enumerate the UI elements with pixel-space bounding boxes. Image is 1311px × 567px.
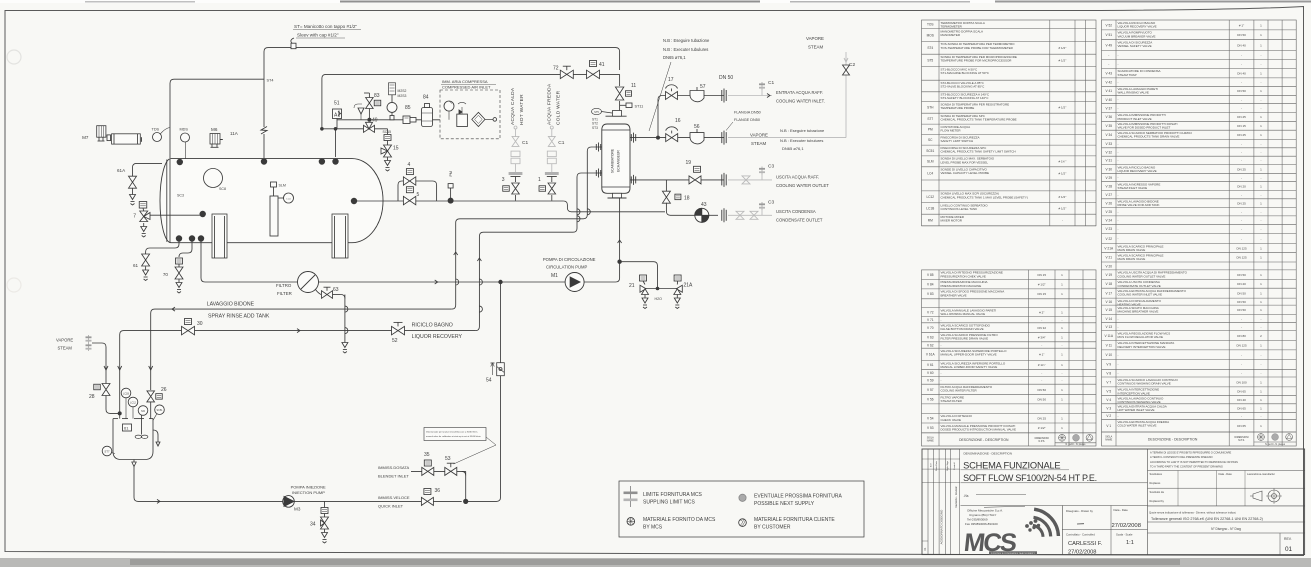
svg-text:CONTINUOS WASHING DRAIN VALVE: CONTINUOS WASHING DRAIN VALVE (1118, 381, 1171, 385)
funnel vent (354, 104, 362, 108)
wire liquor recovery riser right (452, 147, 602, 309)
valve 5 (403, 196, 415, 204)
svg-text:-: - (1118, 210, 1119, 214)
svg-text:V 1: V 1 (1106, 424, 1111, 428)
svg-text:STEAM: STEAM (808, 45, 823, 50)
vessel left head seam (166, 160, 168, 242)
svg-text:-: - (1108, 62, 1109, 66)
tank overflow (153, 430, 158, 442)
valve 56 steam filter (690, 133, 704, 144)
vessel nozzle left mid (200, 211, 206, 217)
svg-text:FLANGE DN50: FLANGE DN50 (734, 118, 760, 122)
svg-text:-: - (1260, 237, 1261, 241)
svg-text:MCS FLOW REGULATOR VALVE: MCS FLOW REGULATOR VALVE (1118, 335, 1163, 339)
svg-text:C3: C3 (768, 164, 774, 170)
svg-text:V 22: V 22 (1105, 237, 1112, 241)
svg-text:V 32: V 32 (1105, 150, 1112, 154)
svg-text:-: - (1241, 142, 1242, 146)
legend by mcs symbol (627, 518, 635, 526)
valve 53 dosata manual (445, 467, 457, 475)
valve 17 diaphragm cooling inlet (666, 92, 678, 100)
svg-text:CONDENSATE OUTLET VALVE: CONDENSATE OUTLET VALVE (1118, 284, 1161, 288)
svg-text:Data - Date: Data - Date (1219, 472, 1233, 476)
svg-text:ST4: ST4 (267, 79, 274, 83)
svg-text:Sleev with cap #1/2": Sleev with cap #1/2" (297, 33, 339, 38)
svg-text:DN 40: DN 40 (1237, 43, 1246, 47)
svg-text:FILTER: FILTER (277, 291, 292, 296)
svg-text:ST2-VALVE BLOCKING AT 85°C: ST2-VALVE BLOCKING AT 85°C (941, 85, 986, 89)
instrument table (922, 20, 1097, 226)
svg-text:DESCRIZIONE - DESCRIPTION: DESCRIZIONE - DESCRIPTION (1148, 437, 1198, 441)
svg-text:-: - (1118, 150, 1119, 154)
air filter diamond (472, 112, 485, 126)
svg-text:V 36: V 36 (1105, 115, 1112, 119)
svg-text:# 1/2": # 1/2" (1059, 106, 1067, 110)
valve 21 (640, 275, 647, 281)
svg-text:5: 5 (417, 192, 420, 198)
svg-text:-: - (1118, 98, 1119, 102)
wire spray rinse add tank line (151, 309, 452, 390)
wire injection line (134, 460, 460, 502)
svg-text:FILTER PRESSURE DRAIN VALVE: FILTER PRESSURE DRAIN VALVE (941, 337, 989, 341)
svg-text:16: 16 (675, 118, 681, 124)
svg-text:V 11: V 11 (1106, 343, 1113, 347)
svg-text:DN 20: DN 20 (1237, 184, 1246, 188)
valve 57 cooling water filter (690, 91, 704, 102)
arrow recovery riser (454, 252, 458, 255)
valve 11 delivery interception (615, 87, 623, 100)
svg-text:V 30: V 30 (1105, 167, 1112, 171)
svg-text:N. pezzi - N. pieces: N. pezzi - N. pieces (1265, 444, 1286, 446)
svg-text:11: 11 (631, 83, 636, 89)
svg-text:POSSIBLE NEXT SUPPLY: POSSIBLE NEXT SUPPLY (754, 501, 815, 507)
circulation pump M1 (565, 273, 584, 292)
svg-text:Urgnano (BG) ITALY: Urgnano (BG) ITALY (969, 513, 996, 517)
svg-text:V 61: V 61 (927, 363, 934, 367)
valve 52 liquor recovery (392, 326, 405, 334)
svg-text:Officine Meccaniche S.p.A.: Officine Meccaniche S.p.A. (967, 509, 1003, 513)
svg-text:1:1: 1:1 (1126, 540, 1134, 546)
instrument SC51 (155, 405, 165, 415)
svg-text:V 17: V 17 (1105, 291, 1112, 295)
svg-text:VESSEL SAFETY VALVE: VESSEL SAFETY VALVE (1118, 44, 1152, 48)
valve table right footer (1102, 431, 1297, 433)
wire cooling water outlet (630, 179, 724, 181)
manhole SC8 (204, 169, 223, 188)
gauge TDS (153, 133, 162, 142)
svg-text:V 19: V 19 (1105, 273, 1112, 277)
svg-text:ST5: ST5 (927, 59, 933, 63)
svg-text:-: - (1260, 414, 1261, 418)
svg-text:INIECTION PUMP: INIECTION PUMP (292, 490, 325, 495)
svg-text:Sostituito da: Sostituito da (1150, 490, 1165, 494)
svg-text:-: - (1062, 343, 1063, 347)
svg-text:MDS: MDS (180, 128, 189, 132)
svg-text:DN 125: DN 125 (1236, 246, 1247, 250)
svg-text:57: 57 (700, 84, 706, 90)
svg-text:-: - (1108, 53, 1109, 57)
svg-text:V 52: V 52 (1105, 23, 1112, 27)
svg-text:V 71: V 71 (927, 318, 934, 322)
svg-text:ST= Manicotto con tappo #1/2": ST= Manicotto con tappo #1/2" (294, 24, 357, 29)
svg-text:-: - (1062, 371, 1063, 375)
svg-text:C1: C1 (768, 80, 774, 86)
svg-text:-: - (1260, 150, 1261, 154)
svg-text:IMMISS.DOSATA: IMMISS.DOSATA (378, 465, 410, 470)
svg-text:V 18: V 18 (1105, 282, 1112, 286)
svg-text:V 14: V 14 (1105, 317, 1112, 321)
svg-text:36: 36 (435, 488, 441, 494)
svg-text:DN 32: DN 32 (1037, 326, 1046, 330)
svg-text:N.P.S.: N.P.S. (1238, 439, 1245, 442)
svg-text:Controllato - Controlled: Controllato - Controlled (1066, 533, 1095, 537)
svg-text:21A: 21A (684, 283, 694, 289)
svg-text:M7: M7 (82, 135, 89, 140)
svg-text:CONDENSATE OUTLET: CONDENSATE OUTLET (776, 218, 823, 223)
svg-text:DN 50: DN 50 (1037, 398, 1046, 402)
svg-text:-: - (1260, 218, 1261, 222)
drawn by cell (1061, 506, 1063, 555)
svg-text:-: - (1241, 363, 1242, 367)
wire customer cooling inlet gray (728, 95, 772, 97)
wire wall rinse line 72-41 (322, 74, 620, 128)
svg-text:LIMITE FORNITURA MCS: LIMITE FORNITURA MCS (643, 492, 703, 498)
wire filter drain down (344, 295, 346, 340)
exchanger nozzle left upper (595, 144, 597, 150)
svg-text:# 1/2": # 1/2" (1059, 207, 1067, 211)
MCS logo (962, 509, 1058, 557)
svg-text:ST1-MACHINE BLOCKING AT 50°C: ST1-MACHINE BLOCKING AT 50°C (941, 71, 990, 75)
svg-text:DN 15: DN 15 (1037, 273, 1046, 277)
svg-text:LIQUOR RECOVERY: LIQUOR RECOVERY (412, 334, 463, 340)
valve 61A upper door safety (133, 163, 163, 176)
svg-text:-: - (941, 318, 942, 322)
svg-text:DENOMINAZIONE - DESCRIPTION: DENOMINAZIONE - DESCRIPTION (964, 452, 1013, 456)
replaces cells (1148, 470, 1305, 472)
svg-text:-: - (941, 343, 942, 347)
svg-text:-: - (1260, 176, 1261, 180)
svg-text:-: - (1260, 53, 1261, 57)
svg-text:# 1/2": # 1/2" (1038, 426, 1046, 430)
svg-text:STEAM: STEAM (58, 346, 73, 351)
svg-text:BY MCS: BY MCS (643, 525, 663, 531)
svg-text:-: - (1241, 218, 1242, 222)
svg-text:ACQUA FREDDA: ACQUA FREDDA (546, 83, 552, 125)
svg-text:VALVE FOR DOSED PRODUCT INLET: VALVE FOR DOSED PRODUCT INLET (1118, 126, 1171, 130)
svg-text:-: - (1260, 62, 1261, 66)
wire liquor recovery line (120, 331, 476, 419)
svg-text:TEMPERATURE PROBE FOR MICROPRO: TEMPERATURE PROBE FOR MICROPROCESSOR (941, 59, 1013, 63)
svg-text:51: 51 (334, 101, 340, 107)
svg-text:-: - (1118, 218, 1119, 222)
svg-text:ST4: ST4 (927, 46, 933, 50)
svg-text:-: - (1241, 414, 1242, 418)
svg-text:REV.: REV. (1284, 537, 1292, 541)
svg-text:4: 4 (408, 162, 411, 168)
svg-text:STEAM TRAP: STEAM TRAP (1118, 73, 1137, 77)
svg-text:26: 26 (161, 387, 167, 393)
svg-text:V 70: V 70 (927, 326, 934, 330)
flange hot water (511, 176, 521, 178)
svg-text:SAFETY LIMIT SWITCH: SAFETY LIMIT SWITCH (941, 139, 974, 143)
svg-text:-: - (941, 371, 942, 375)
valve 28 steam inlet (102, 384, 110, 396)
valve 3 water inlet (515, 177, 517, 183)
svg-text:MANUAL LOWER-DOOR SAFETY VALVE: MANUAL LOWER-DOOR SAFETY VALVE (941, 365, 998, 369)
valve 34 drain (324, 501, 326, 507)
svg-text:-: - (1118, 80, 1119, 84)
svg-text:PRESSURIZATION CHEK VALVE: PRESSURIZATION CHEK VALVE (941, 274, 986, 278)
svg-text:LC1B: LC1B (123, 393, 129, 396)
svg-text:-: - (1118, 159, 1119, 163)
svg-text:Scala - Scale: Scala - Scale (1116, 533, 1133, 537)
svg-text:53: 53 (445, 456, 451, 462)
wire riser check valve (460, 282, 501, 501)
svg-text:SC: SC (928, 138, 933, 142)
svg-text:-: - (1241, 227, 1242, 231)
sleeve with cap symbol (291, 43, 296, 49)
label 61 tank (123, 424, 132, 431)
node C1 inlet (761, 82, 763, 90)
svg-text:POMPA DI CIRCOLAZIONE: POMPA DI CIRCOLAZIONE (543, 257, 596, 262)
svg-text:VACUUM BREAKER VALVE: VACUUM BREAKER VALVE (1118, 34, 1156, 38)
svg-text:18: 18 (684, 196, 690, 202)
svg-text:RM: RM (928, 218, 933, 222)
drain filter line (344, 339, 346, 343)
svg-text:M6: M6 (211, 127, 218, 132)
wire cooling water inlet line (658, 96, 724, 138)
svg-text:C1: C1 (558, 140, 564, 146)
svg-text:DN65 ø76,1: DN65 ø76,1 (782, 146, 804, 151)
valve 18 condensate (662, 191, 670, 203)
svg-text:-: - (1241, 106, 1242, 110)
svg-text:Revisione - Revision: Revisione - Revision (955, 485, 958, 507)
valve 72 manual wall rinse (560, 70, 573, 78)
wire air branch line (322, 128, 388, 130)
svg-text:-: - (1241, 80, 1242, 84)
svg-text:-: - (1118, 62, 1119, 66)
svg-text:-: - (1241, 237, 1242, 241)
svg-text:35: 35 (424, 452, 430, 458)
svg-text:# 1": # 1" (1039, 353, 1044, 357)
steam trap 43 (695, 208, 709, 222)
instrument table footer (922, 432, 1097, 434)
svg-text:V 9: V 9 (1106, 363, 1111, 367)
svg-text:-: - (1241, 317, 1242, 321)
svg-text:-: - (1260, 193, 1261, 197)
svg-text:V 24: V 24 (1105, 218, 1112, 222)
svg-text:19: 19 (686, 160, 692, 166)
svg-text:V 62: V 62 (927, 343, 934, 347)
svg-text:-: - (1241, 193, 1242, 197)
svg-text:43: 43 (701, 202, 707, 208)
svg-text:ECHANGEUR: ECHANGEUR (617, 150, 621, 172)
legend limit symbol (630, 486, 632, 507)
svg-text:VESSEL CAPACITY LEVEL PROBE: VESSEL CAPACITY LEVEL PROBE (941, 171, 990, 175)
air gauge in box (444, 101, 454, 111)
motor M6 (210, 134, 220, 145)
svg-text:V 26: V 26 (1105, 201, 1112, 205)
svg-text:Replaces: Replaces (1150, 481, 1162, 485)
svg-text:INTERCEPTION VALVE: INTERCEPTION VALVE (1118, 391, 1150, 395)
svg-text:-: - (1241, 150, 1242, 154)
svg-text:V 60: V 60 (927, 371, 934, 375)
svg-text:STH: STH (927, 106, 934, 110)
drawing number cell (1148, 521, 1305, 523)
svg-text:POMPA INIEZIONE: POMPA INIEZIONE (291, 485, 326, 490)
svg-text:-: - (1241, 353, 1242, 357)
svg-text:-: - (1260, 142, 1261, 146)
svg-text:EVENTUALE PROSSIMA FORNITURA: EVENTUALE PROSSIMA FORNITURA (754, 494, 842, 500)
svg-text:SLM: SLM (927, 160, 934, 164)
svg-text:-: - (1241, 62, 1242, 66)
svg-text:V 29: V 29 (1105, 176, 1112, 180)
valve 36 quick inlet (421, 497, 433, 505)
svg-text:63: 63 (333, 287, 339, 293)
svg-text:Disegnato - Drawn by: Disegnato - Drawn by (1066, 509, 1093, 513)
svg-text:DESCRIZIONE - DESCRIPTION: DESCRIZIONE - DESCRIPTION (959, 438, 1009, 442)
svg-text:VAPORE: VAPORE (56, 338, 73, 343)
svg-text:Sigla-Sign: Sigla-Sign (947, 460, 949, 471)
svg-text:ACQUA CALDA: ACQUA CALDA (510, 87, 516, 125)
valve 4 (403, 177, 415, 185)
svg-text:-: - (941, 379, 942, 383)
svg-text:-: - (1118, 227, 1119, 231)
svg-text:V 31: V 31 (1105, 159, 1112, 163)
svg-text:COMPRESSED AIR INLET: COMPRESSED AIR INLET (442, 85, 491, 90)
svg-text:Tel 035/893069: Tel 035/893069 (967, 518, 988, 522)
svg-text:41: 41 (599, 62, 605, 68)
svg-text:ST7: ST7 (104, 450, 110, 454)
svg-text:ST3-SAFETY BLOCKING AT 140°C: ST3-SAFETY BLOCKING AT 140°C (941, 96, 990, 100)
instrument ST11 (620, 104, 626, 106)
svg-text:-: - (1260, 371, 1261, 375)
svg-text:V 21A: V 21A (1104, 246, 1114, 250)
svg-text:SC51: SC51 (157, 409, 164, 412)
svg-text:MATERIALE FORNITURA CLIENTE: MATERIALE FORNITURA CLIENTE (754, 517, 835, 523)
svg-text:CHEMICAL PRODUCTS TANK SAFETY: CHEMICAL PRODUCTS TANK SAFETY LIMIT SWIT… (941, 150, 1016, 154)
svg-text:LC4: LC4 (927, 172, 933, 176)
arrow main line (435, 280, 438, 284)
svg-text:TOS-TEMPERATURE PROBE FOR THER: TOS-TEMPERATURE PROBE FOR THERMOMETER (941, 46, 1014, 50)
legal text (1147, 449, 1149, 555)
svg-text:-: - (1118, 53, 1119, 57)
svg-text:-: - (1260, 353, 1261, 357)
svg-text:PM: PM (449, 171, 453, 176)
wire immissione dosata line (411, 470, 466, 472)
svg-text:PRESSURIZATION MACHINE: PRESSURIZATION MACHINE (941, 284, 982, 288)
svg-text:-: - (1118, 414, 1119, 418)
svg-text:-: - (1118, 176, 1119, 180)
valve 19 cooling outlet (689, 176, 701, 184)
svg-text:27/02/2008: 27/02/2008 (1068, 550, 1096, 556)
filter FILTRO (298, 272, 319, 293)
valve 26 rinse add tank (147, 391, 155, 402)
svg-text:HOT WATER INLET VALVE: HOT WATER INLET VALVE (1118, 408, 1155, 412)
svg-text:-: - (1118, 363, 1119, 367)
svg-text:N.B : Executer tubulures: N.B : Executer tubulures (663, 47, 708, 52)
svg-text:SC51: SC51 (926, 149, 934, 153)
svg-text:STEAM FILTER: STEAM FILTER (941, 399, 963, 403)
valve C2 steam supply (843, 65, 850, 75)
gauge on air line (387, 102, 397, 112)
svg-text:ST11: ST11 (635, 104, 644, 108)
svg-text:-: - (1241, 210, 1242, 214)
wire steam to tank (92, 343, 120, 413)
wire condensate to pump (666, 203, 694, 216)
svg-text:# 1¼": # 1¼" (1038, 363, 1046, 367)
svg-text:MATERIALE FORNITO DA MCS: MATERIALE FORNITO DA MCS (643, 517, 716, 523)
vessel nozzle dots bottom (176, 235, 182, 241)
svg-text:Controll.: Controll. (953, 462, 956, 471)
svg-text:-: - (1062, 318, 1063, 322)
svg-text:-: - (1041, 343, 1042, 347)
valve 61 lower door safety (146, 241, 179, 254)
svg-text:21: 21 (629, 283, 635, 289)
svg-text:54: 54 (486, 378, 492, 384)
legend box (619, 481, 864, 537)
svg-text:CHEMICAL PRODUCTS TANK 1 MAX L: CHEMICAL PRODUCTS TANK 1 MAX LEVEL PROBE… (941, 195, 1028, 199)
svg-text:DN 15: DN 15 (1237, 124, 1246, 128)
svg-text:BY CUSTOMER: BY CUSTOMER (754, 525, 791, 531)
svg-text:-Ns: -Ns (964, 494, 969, 498)
title block revision strip (927, 449, 929, 555)
air regulator in box (457, 114, 468, 126)
svg-text:17: 17 (668, 77, 674, 83)
svg-text:V 27: V 27 (1105, 193, 1112, 197)
wire air line (337, 119, 440, 121)
svg-text:M3: M3 (141, 409, 145, 413)
svg-text:-: - (1260, 98, 1261, 102)
svg-text:# 1/2": # 1/2" (1059, 59, 1067, 63)
vessel support leg right (332, 214, 348, 258)
svg-text:DN 25: DN 25 (1237, 115, 1246, 119)
svg-text:V 2: V 2 (1106, 414, 1111, 418)
svg-text:ENTRATA ACQUA RAFF.: ENTRATA ACQUA RAFF. (776, 90, 823, 95)
svg-text:-: - (1041, 379, 1042, 383)
svg-text:QUICK INLET: QUICK INLET (378, 504, 404, 509)
svg-text:LC1B: LC1B (926, 207, 934, 211)
svg-text:USCITA CONDENSA: USCITA CONDENSA (776, 209, 816, 214)
svg-text:A TERMINI DI LEGGE E' PROIBITO: A TERMINI DI LEGGE E' PROIBITO RIPRODURR… (1150, 451, 1232, 455)
svg-text:C3: C3 (768, 200, 774, 206)
flange cooling outlet (721, 174, 723, 185)
svg-text:CHEMICAL PRODUCTS TANK DRAIN V: CHEMICAL PRODUCTS TANK DRAIN VALVE (1118, 135, 1180, 139)
svg-text:V 28: V 28 (1105, 184, 1112, 188)
svg-text:DN 50: DN 50 (719, 75, 733, 81)
flange DN50 inlet (721, 90, 723, 101)
solenoid M2S2 M2S3 (389, 83, 396, 95)
svg-text:M2S3: M2S3 (398, 94, 407, 98)
svg-text:-: - (1260, 363, 1261, 367)
svg-text:NAME: NAME (1105, 439, 1112, 442)
svg-text:M3: M3 (294, 507, 301, 512)
svg-text:85: 85 (405, 105, 411, 111)
svg-text:TERMOMETER: TERMOMETER (941, 24, 963, 28)
svg-text:83: 83 (374, 93, 380, 99)
svg-text:STEAM INLET VALVE: STEAM INLET VALVE (1118, 186, 1148, 190)
svg-text:V 41: V 41 (1105, 89, 1112, 93)
exchanger nozzle left lower (595, 170, 597, 176)
svg-text:30: 30 (197, 321, 203, 327)
wire steam inlet line (630, 137, 724, 139)
svg-text:COOLING WATER FILTER: COOLING WATER FILTER (941, 389, 978, 393)
svg-text:72: 72 (553, 66, 559, 72)
svg-text:VAPORE: VAPORE (750, 133, 768, 138)
svg-text:CONTINUOS WASHING VALVE: CONTINUOS WASHING VALVE (1118, 400, 1161, 404)
svg-text:N.P.S.: N.P.S. (1038, 440, 1045, 443)
valve table right (1102, 20, 1297, 446)
